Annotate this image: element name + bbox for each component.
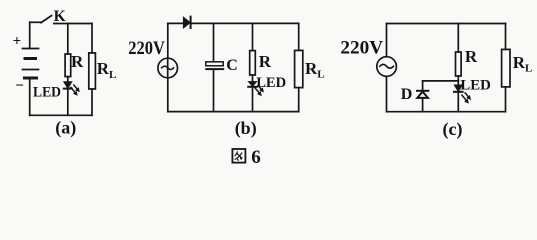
capacitor C (b) bottom plate bbox=[205, 68, 224, 70]
wire RL to bottom (b) bbox=[298, 88, 300, 112]
wire left upper (a) bbox=[29, 22, 31, 48]
switch K bbox=[30, 16, 52, 23]
AC source (b) tilde bbox=[162, 66, 174, 69]
wire bottom (b) bbox=[168, 111, 299, 113]
capacitor C (b) top plate bbox=[206, 62, 223, 66]
LED (b) triangle bbox=[249, 82, 257, 87]
svg-text:R: R bbox=[465, 47, 478, 66]
LED (c) triangle bbox=[454, 85, 462, 91]
resistor R (b) body bbox=[250, 51, 256, 75]
LED (a) emission arrows bbox=[71, 85, 80, 96]
LED (b) emission arrows bbox=[255, 85, 264, 96]
wire diode branch vertical upper (c) bbox=[422, 81, 424, 90]
resistor RL (c) body bbox=[502, 49, 510, 87]
wire R branch top (c) bbox=[457, 24, 459, 53]
svg-text:RL: RL bbox=[513, 53, 533, 75]
battery cell plate long 1 bbox=[23, 48, 39, 50]
wire left lower (a) bbox=[29, 78, 31, 115]
diode D (c) triangle bbox=[417, 92, 428, 98]
wire source bottom (c) bbox=[386, 76, 388, 111]
svg-text:6: 6 bbox=[251, 147, 260, 168]
LED (c) cathode bar bbox=[454, 91, 463, 93]
svg-text:RL: RL bbox=[97, 59, 117, 81]
wire bottom (a) bbox=[30, 114, 92, 116]
svg-text:LED: LED bbox=[33, 85, 61, 101]
resistor RL (b) body bbox=[295, 50, 303, 87]
wire top left (b) bbox=[168, 22, 184, 24]
AC source (b) line through bbox=[167, 58, 169, 78]
wire R branch top (a) bbox=[67, 24, 69, 55]
battery cell plate short 2 bbox=[25, 77, 37, 80]
wire top right (b) bbox=[191, 22, 299, 24]
svg-text:K: K bbox=[54, 8, 66, 25]
svg-text:C: C bbox=[226, 57, 238, 74]
caption figure 6 glyph bbox=[232, 149, 245, 163]
LED (c) emission arrows bbox=[462, 93, 471, 104]
wire capacitor top (b) bbox=[213, 23, 215, 61]
wire source bottom (b) bbox=[167, 78, 169, 112]
resistor R (c) body bbox=[456, 52, 462, 76]
wire LED to bottom (b) bbox=[252, 87, 254, 112]
wire RL to bottom (a) bbox=[91, 89, 93, 115]
AC source (b) circle bbox=[158, 58, 178, 78]
wire diode branch horizontal (c) bbox=[423, 80, 459, 82]
battery cell plate long 2 bbox=[23, 69, 39, 71]
wire top (a) bbox=[54, 23, 92, 25]
wire R to LED (c) / node junction bbox=[457, 76, 459, 85]
wire RL branch top (a) bbox=[91, 24, 93, 53]
wire R branch top (b) bbox=[252, 23, 254, 50]
resistor R (a) body bbox=[65, 54, 71, 77]
diode (b) cathode bar bbox=[190, 17, 192, 28]
wire source top (c) bbox=[386, 24, 388, 57]
svg-text:(a): (a) bbox=[55, 118, 76, 139]
LED (a) cathode bar bbox=[64, 88, 72, 90]
svg-text:(b): (b) bbox=[235, 118, 257, 139]
diode D (c) cathode bar bbox=[417, 90, 428, 92]
AC source (c) circle bbox=[377, 57, 397, 77]
wire RL to bottom (c) bbox=[505, 87, 507, 112]
diode (b) triangle bbox=[183, 17, 190, 28]
wire R to LED (b) bbox=[252, 75, 254, 82]
svg-text:220V: 220V bbox=[128, 39, 165, 59]
svg-text:R: R bbox=[71, 52, 84, 71]
svg-text:D: D bbox=[401, 86, 413, 103]
wire diode branch vertical lower (c) bbox=[422, 98, 424, 112]
resistor RL (a) body bbox=[89, 53, 96, 89]
wire RL branch top (b) bbox=[298, 23, 300, 50]
wire source top (b) bbox=[167, 23, 169, 58]
svg-text:LED: LED bbox=[256, 75, 286, 91]
wire capacitor bottom (b) bbox=[213, 70, 215, 112]
svg-text:R: R bbox=[259, 52, 272, 71]
AC source (c) tilde bbox=[380, 64, 394, 68]
wire R to LED (a) bbox=[67, 77, 69, 82]
svg-text:RL: RL bbox=[305, 59, 325, 81]
wire top (c) bbox=[387, 23, 506, 25]
svg-text:+: + bbox=[13, 34, 22, 50]
svg-text:220V: 220V bbox=[340, 39, 383, 59]
svg-text:−: − bbox=[15, 78, 24, 94]
wire LED to bottom (a) bbox=[67, 89, 69, 116]
LED (a) triangle bbox=[64, 82, 72, 89]
wire bottom (c) bbox=[387, 111, 506, 113]
battery cell plate short 1 bbox=[25, 57, 36, 60]
wire LED to bottom (c) bbox=[457, 92, 459, 112]
svg-text:LED: LED bbox=[460, 78, 491, 94]
svg-text:(c): (c) bbox=[443, 119, 463, 140]
LED (b) cathode bar bbox=[248, 86, 257, 88]
wire RL branch top (c) bbox=[505, 24, 507, 50]
